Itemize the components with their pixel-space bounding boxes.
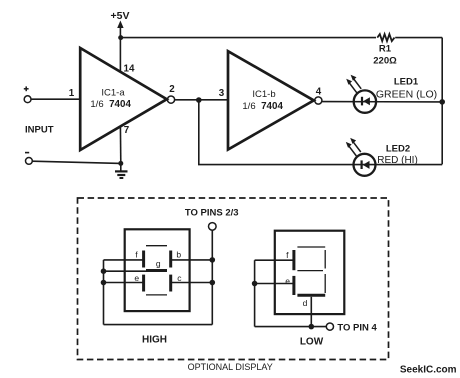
svg-text:7: 7 <box>124 125 130 136</box>
svg-text:b: b <box>176 249 181 259</box>
inverter IC1-b <box>228 51 314 149</box>
wire: pin 7 ground stub <box>119 126 121 163</box>
node: e / left bus (LOW) <box>252 281 258 287</box>
inverter bubble IC1-a output <box>167 96 174 103</box>
wire: pin 4 through LED1 to right rail <box>322 101 442 103</box>
node: b / right bus <box>210 257 216 263</box>
wire: HIGH left bus vertical <box>103 260 105 325</box>
wire: segment c to right bus <box>171 282 213 284</box>
segment b (HIGH) <box>169 251 172 268</box>
svg-text:TO PIN 4: TO PIN 4 <box>337 322 377 333</box>
wire: HIGH bottom bus <box>104 324 213 326</box>
svg-text:LOW: LOW <box>300 337 324 348</box>
svg-text:R1: R1 <box>379 44 392 55</box>
segment g (LOW, unlit) <box>297 270 323 272</box>
wire: segment g to left bus <box>104 270 147 272</box>
svg-text:e: e <box>285 276 290 286</box>
node: g / left bus <box>101 268 107 274</box>
svg-text:d: d <box>303 298 308 308</box>
label 1/6 7404 <box>242 101 283 112</box>
svg-text:GREEN (LO): GREEN (LO) <box>376 89 437 101</box>
svg-text:e: e <box>134 273 139 283</box>
segment d (LOW) <box>297 294 325 297</box>
inverter IC1-a <box>80 48 167 150</box>
wire: segment b to right bus <box>171 259 213 261</box>
node: ground junction <box>118 161 123 166</box>
LED LED2 <box>354 154 376 176</box>
node: LED1 / right rail junction <box>439 99 445 105</box>
segment a (LOW, unlit) <box>297 246 325 248</box>
HIGH display box <box>125 229 190 311</box>
wire: right rail vertical <box>441 38 443 165</box>
wire: segment e to left bus (LOW) <box>255 283 294 285</box>
svg-text:RED (HI): RED (HI) <box>377 155 418 166</box>
svg-text:g: g <box>156 259 161 269</box>
svg-text:4: 4 <box>316 87 322 98</box>
optional display dashed border <box>78 198 389 360</box>
wire: terminal down right side of HIGH display <box>211 230 213 324</box>
svg-text:LED1: LED1 <box>394 77 419 88</box>
wire: pin 14 supply stub <box>119 38 121 72</box>
wire: + input to pin 1 <box>31 98 80 100</box>
svg-text:220Ω: 220Ω <box>373 56 397 67</box>
LED1 emission arrows <box>346 75 361 93</box>
svg-text:HIGH: HIGH <box>142 335 167 346</box>
svg-text:14: 14 <box>124 64 135 75</box>
node: +5V rail junction <box>118 35 123 40</box>
wire: segment f to left bus <box>104 259 144 261</box>
svg-text:TO PINS 2/3: TO PINS 2/3 <box>185 208 239 219</box>
node: e / left bus <box>101 280 107 286</box>
wire: LOW bottom bus to terminal <box>255 326 327 328</box>
LOW display box <box>275 231 345 314</box>
node: d / bottom bus <box>309 324 315 330</box>
wire: segment f to left bus (LOW) <box>255 259 294 261</box>
minus sign of input <box>25 152 29 154</box>
segment a (HIGH, unlit) <box>146 245 167 247</box>
svg-text:1/6: 1/6 <box>242 101 255 112</box>
terminal: input + <box>24 96 31 103</box>
label 1/6 7404 <box>90 99 131 110</box>
svg-text:LED2: LED2 <box>386 143 410 154</box>
segment e (LOW) <box>292 276 295 295</box>
wire: +5V rail to R1 <box>121 37 376 39</box>
LED LED1 <box>354 90 376 112</box>
wire: pin 2 to pin 3 <box>175 99 228 101</box>
svg-text:OPTIONAL DISPLAY: OPTIONAL DISPLAY <box>188 362 273 372</box>
terminal: to pin 4 <box>326 323 333 330</box>
resistor R1 <box>377 34 394 41</box>
svg-text:3: 3 <box>219 88 225 99</box>
svg-text:c: c <box>177 273 182 283</box>
terminal: to pins 2/3 <box>209 223 217 231</box>
wire: - input to ground node <box>32 161 121 163</box>
svg-text:1: 1 <box>69 88 75 99</box>
terminal: input - <box>26 158 33 165</box>
svg-text:INPUT: INPUT <box>25 125 54 136</box>
LED2 emission arrows <box>346 138 361 156</box>
plus sign of input <box>24 86 29 91</box>
svg-text:IC1-a: IC1-a <box>101 88 125 99</box>
segment g (HIGH) <box>146 269 167 272</box>
power +5V arrow <box>117 21 123 38</box>
svg-text:+5V: +5V <box>111 10 130 22</box>
segment b (LOW, unlit) <box>324 250 326 269</box>
segment c (LOW, unlit) <box>324 274 326 293</box>
segment c (HIGH) <box>169 275 172 292</box>
wire: R1 to right rail corner <box>395 37 442 39</box>
svg-text:2: 2 <box>169 84 175 95</box>
wire: LOW left bus vertical <box>254 260 256 326</box>
node: c / right bus <box>210 280 216 286</box>
wire: segment d down to bottom bus <box>310 297 312 327</box>
segment d (HIGH, unlit) <box>146 294 167 296</box>
segment f (HIGH) <box>142 251 145 268</box>
wire: segment e to left bus <box>104 282 144 284</box>
segment e (HIGH) <box>142 275 145 292</box>
segment f (LOW) <box>292 250 295 270</box>
svg-text:7404: 7404 <box>261 101 283 112</box>
wire: node A down and right through LED2 to rail <box>199 100 442 165</box>
svg-text:7404: 7404 <box>109 99 131 110</box>
ground <box>115 163 128 178</box>
svg-text:SeekIC.com: SeekIC.com <box>400 364 457 375</box>
node A: gate interstage junction <box>196 97 202 103</box>
svg-text:IC1-b: IC1-b <box>252 89 275 100</box>
inverter bubble IC1-b output <box>315 97 322 104</box>
svg-text:1/6: 1/6 <box>90 99 103 110</box>
